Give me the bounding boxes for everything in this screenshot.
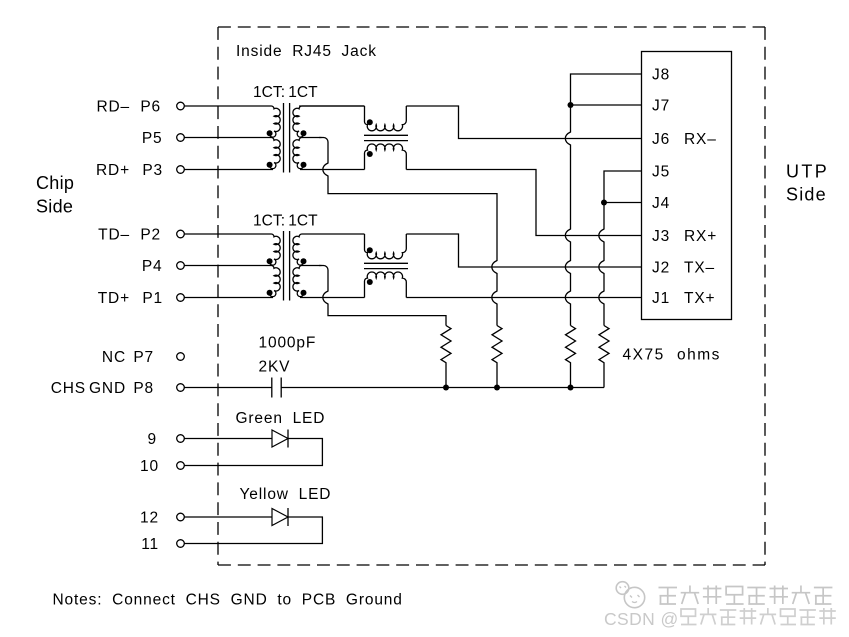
svg-text:Chip: Chip [36,173,74,193]
choke L2 lower winding [365,272,407,297]
svg-text:2KV: 2KV [259,359,291,376]
pin P1 (TD+) terminal and label [98,290,185,307]
choke L1 lower winding [365,144,407,169]
T1 primary polarity dot (lower) [267,162,273,168]
svg-text:TD+: TD+ [98,290,130,307]
svg-text:RX–: RX– [684,131,717,148]
svg-text:P2: P2 [140,227,161,244]
choke L1 lower polarity dot [367,151,373,157]
pin 10 (LED) terminal and label [140,458,184,475]
svg-text:P5: P5 [142,130,163,147]
wire T1 secondary bottom to choke L1 [300,169,365,171]
T1 primary polarity dot (upper) [267,130,273,136]
wire J8 to J7 junction down to resistor R3 [565,74,641,326]
resistor R2 (75 ohm) [492,326,502,388]
wire choke L1 top output to J6 RX- (net RX-) [406,106,641,139]
svg-text:RX+: RX+ [684,228,717,245]
transformer T2 core [284,231,290,301]
transformer T2 secondary upper half [293,234,365,265]
wire T2 center tap down to resistor R1 (with crossover hop) [319,266,446,326]
svg-text:UTP: UTP [786,162,829,182]
junction node J7/J8 tie [568,102,574,108]
watermark logo and text (CSDN) [604,582,836,629]
pin P7 (NC) terminal and label [102,349,184,366]
svg-text:P6: P6 [140,99,161,116]
wire stub J7 [571,104,642,106]
transformer T1 secondary lower half + center tap lead [293,138,322,169]
svg-text:CHS: CHS [51,380,86,397]
choke L1 upper polarity dot [367,119,373,125]
svg-text:1000pF: 1000pF [259,335,317,352]
svg-text:TX–: TX– [684,260,715,277]
svg-text:TX+: TX+ [684,290,715,307]
choke L1 upper winding (entry from T1 secondary top) [299,105,364,107]
svg-text:P3: P3 [142,162,163,179]
wire D1 cathode to pin 10 [184,439,322,466]
svg-text:Yellow LED: Yellow LED [240,486,332,503]
pin P5 terminal and label [142,130,184,147]
LED D1 green: anode wire from pin 9 [184,438,272,440]
pin P2 (TD-) terminal and label [98,227,184,244]
svg-text:GND: GND [89,380,126,397]
wire T2 secondary bottom to choke L2 [300,297,365,299]
svg-text:J1: J1 [652,290,670,307]
svg-text:1CT: 1CT: 1CT: 1CT [253,213,318,230]
resistor R3 (75 ohm) [566,326,576,388]
svg-text:Green LED: Green LED [236,410,326,427]
pin 12 (LED) terminal and label [140,510,184,527]
svg-text:Inside RJ45 Jack: Inside RJ45 Jack [236,43,377,60]
wire choke L2 top output to J2 TX- (net TX-) [406,234,641,267]
resistor R4 (75 ohm) [599,326,609,388]
LED D2 yellow: anode wire from pin 12 [184,516,272,518]
pin P4 terminal and label [142,258,184,275]
wire P1 to T2 primary bottom [184,297,273,299]
LED D2 triangle and cathode bar [272,509,288,526]
choke L2 upper polarity dot [367,247,373,253]
pin P6 (RD-) terminal and label [96,99,184,116]
T1 secondary polarity dot (lower) [301,162,307,168]
svg-text:J2: J2 [652,260,670,277]
chassis ground bus wire C1 to resistor bottoms [281,387,604,389]
svg-text:TD–: TD– [98,227,130,244]
T2 primary polarity dot (upper) [267,258,273,264]
svg-text:CSDN @: CSDN @ [604,609,679,629]
wire T1 center tap down to resistor R2 (with crossover hops) [319,138,497,326]
transformer T1 core [284,103,290,173]
svg-text:1CT: 1CT: 1CT: 1CT [253,84,318,101]
svg-text:P8: P8 [133,380,154,397]
pin 11 (LED) terminal and label [141,536,184,553]
svg-text:RD+: RD+ [96,162,130,179]
svg-text:P7: P7 [133,349,154,366]
svg-text:11: 11 [141,536,159,553]
svg-text:J5: J5 [652,164,670,181]
svg-text:Side: Side [786,185,827,205]
svg-text:J8: J8 [652,67,670,84]
svg-text:Side: Side [36,197,73,217]
wire choke L2 bottom output to J1 TX+ (net TX+) [406,297,641,299]
transformer T2 secondary lower half + center tap lead [293,266,322,297]
RJ45 connector pin box [642,52,732,320]
choke L2 lower polarity dot [367,279,373,285]
wire stub J4 [604,202,642,204]
junction R1 to ground bus [443,385,449,391]
pin P8 (CHS GND) terminal and label [51,380,185,397]
choke L2 core [364,263,408,268]
junction node J4/J5 tie [601,200,607,206]
svg-text:P4: P4 [142,258,163,275]
LED D1 triangle and cathode bar [272,430,288,447]
choke L1 core [364,135,408,140]
pin 9 (LED) terminal and label [148,431,185,448]
svg-text:4X75 ohms: 4X75 ohms [623,346,721,363]
junction R3 to ground bus [568,385,574,391]
transformer T1 primary upper half (pin P6) [184,106,280,137]
wire P8 to capacitor C1 [184,387,271,389]
wire P3 to T1 primary bottom [184,169,273,171]
choke L2 upper winding [365,234,407,259]
svg-text:9: 9 [148,431,157,448]
svg-text:J6: J6 [652,131,670,148]
svg-text:10: 10 [140,458,159,475]
T2 secondary polarity dot (upper) [301,258,307,264]
resistor R1 (75 ohm) [441,326,451,388]
T1 secondary polarity dot (upper) [301,130,307,136]
wire D2 cathode to pin 11 [184,517,322,544]
dashed enclosure border (RJ45 jack outline) [218,27,765,565]
transformer T1 secondary upper half [293,106,365,137]
transformer T1 primary lower half + center tap wire from P5 [184,138,280,169]
svg-text:Notes: Connect CHS GND to: Notes: Connect CHS GND to PCB Ground [53,592,403,609]
svg-text:12: 12 [140,510,159,527]
svg-text:J3: J3 [652,228,670,245]
capacitor C1 plates [272,378,281,398]
wire J5 to J4 junction down to resistor R4 [599,171,642,326]
wire choke L1 bottom output to J3 RX+ (net RX+) [406,170,641,236]
svg-text:NC: NC [102,349,126,366]
svg-text:RD–: RD– [96,99,130,116]
svg-text:J7: J7 [652,98,670,115]
T2 primary polarity dot (lower) [267,290,273,296]
pin P3 (RD+) terminal and label [96,162,184,179]
transformer T2 primary upper half (pin P2) [184,234,280,265]
junction R2 to ground bus [494,385,500,391]
svg-text:J4: J4 [652,195,670,212]
T2 secondary polarity dot (lower) [301,290,307,296]
transformer T2 primary lower half + center tap wire from P4 [184,266,280,297]
svg-text:P1: P1 [142,290,163,307]
